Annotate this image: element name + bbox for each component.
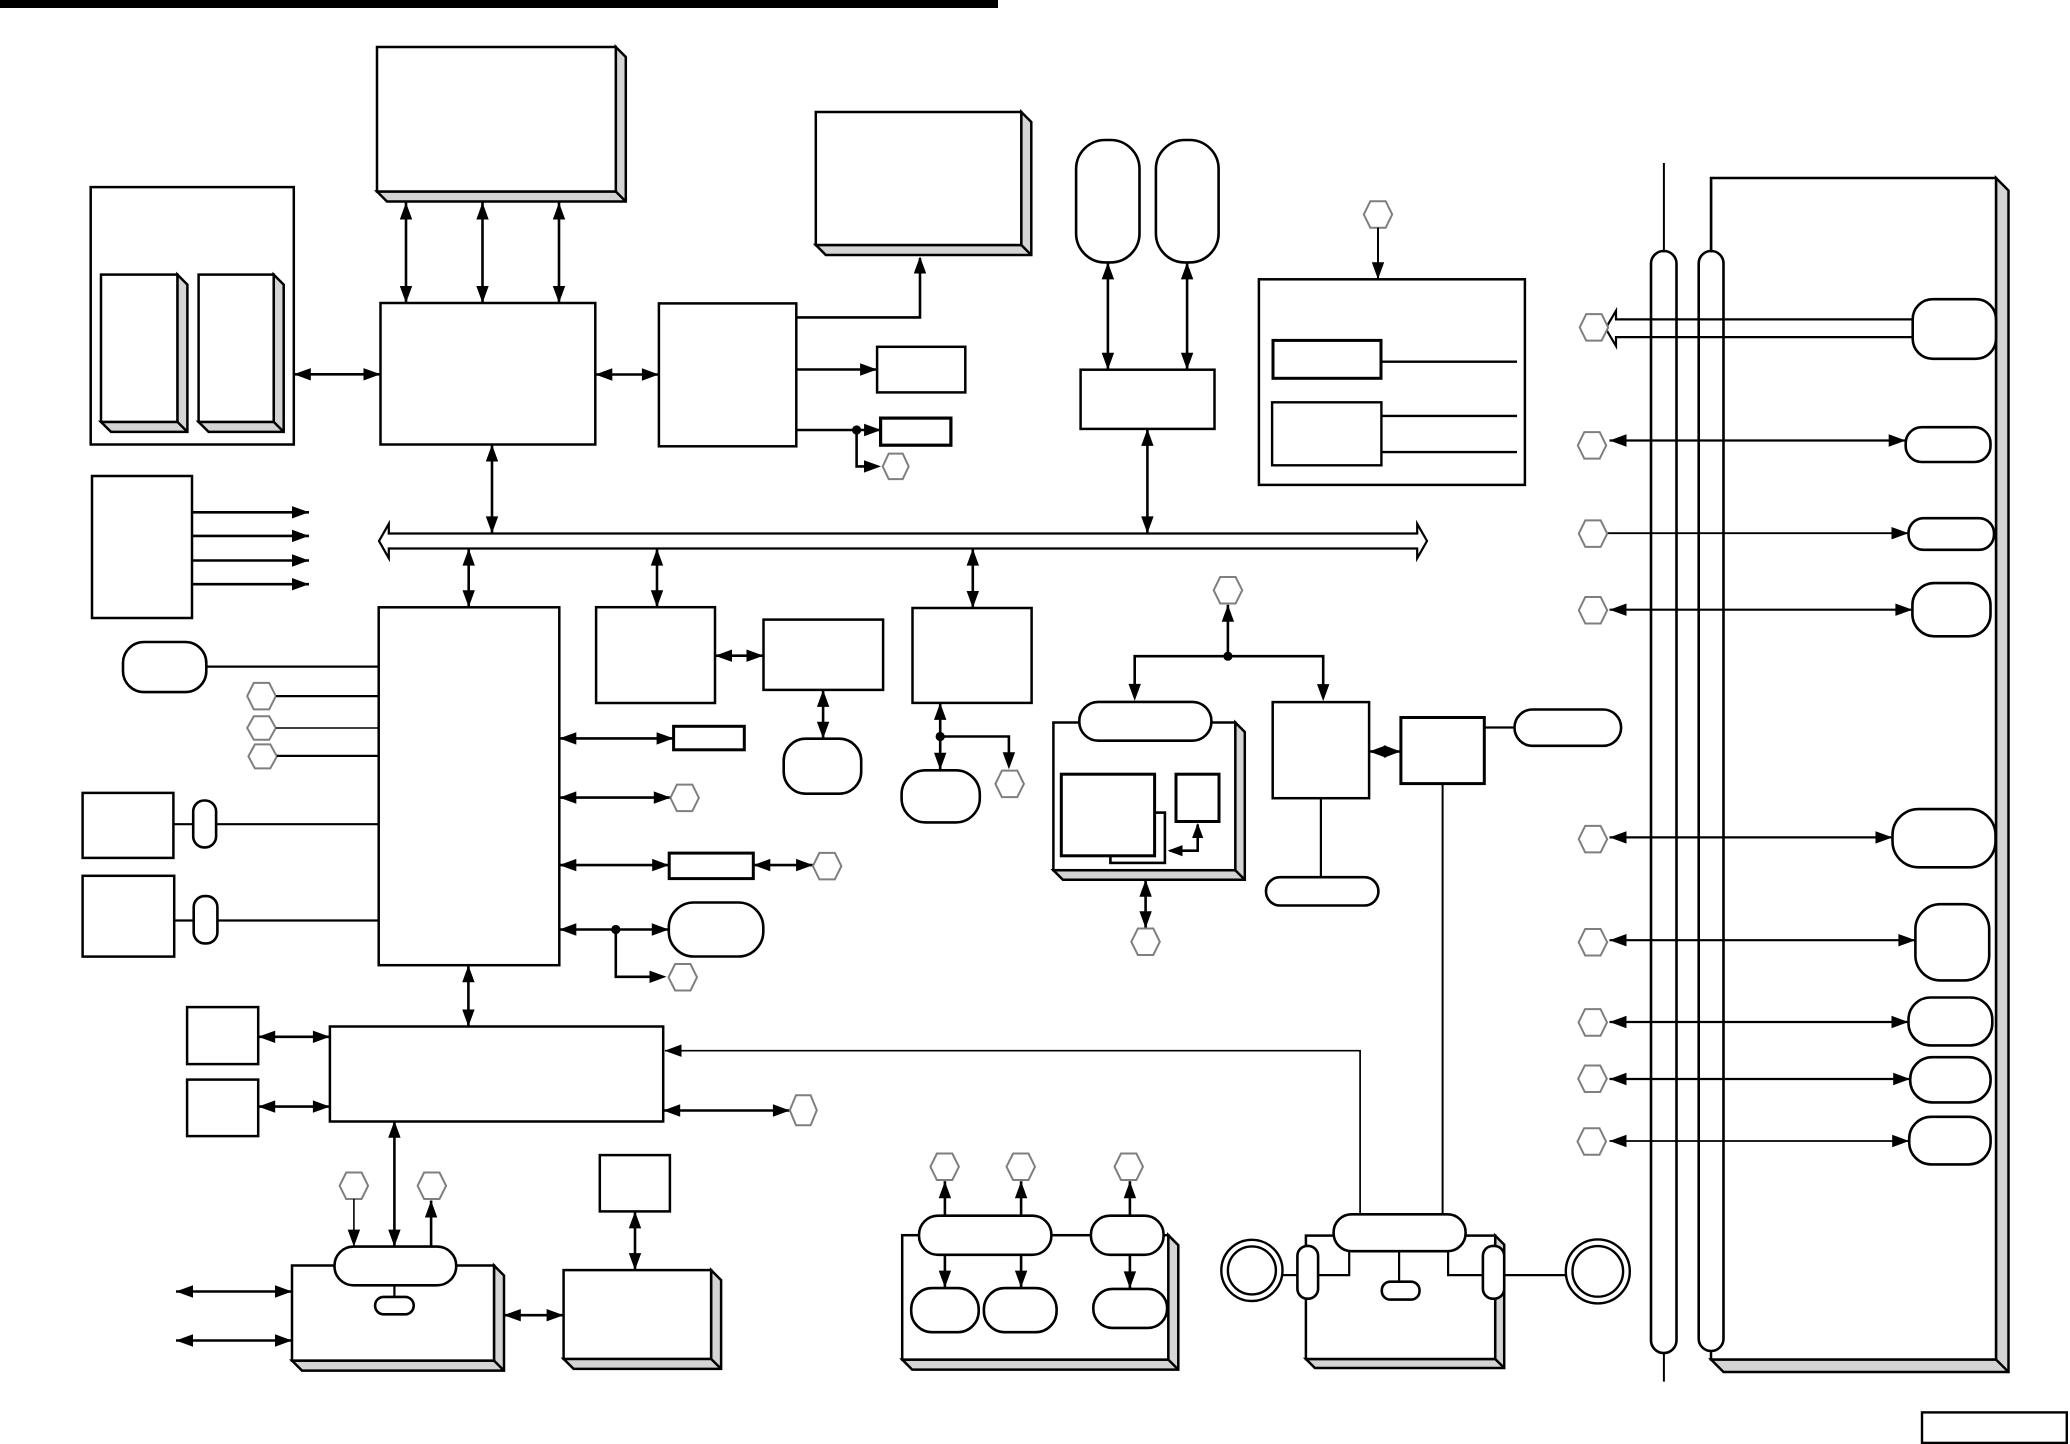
side capsule ZZ1 <box>1297 1246 1318 1299</box>
hexagon Z2 <box>813 853 842 880</box>
port box Y2 <box>669 853 753 879</box>
row 3 jack <box>1909 518 1995 550</box>
stadium GG <box>1266 877 1378 905</box>
speaker capsule WW2 <box>984 1288 1057 1332</box>
arrow N-Z1 <box>559 796 671 799</box>
MM left arrow 2 <box>176 1339 292 1342</box>
wire harness tube 1 <box>1651 251 1677 1353</box>
arrow NN-PP2 <box>430 1201 433 1247</box>
connector row 3 arrow <box>1606 532 1909 534</box>
elbow XX-ZZ2 <box>1448 1251 1483 1275</box>
line Q1 to N <box>173 823 378 825</box>
stadium II <box>1515 710 1622 746</box>
branch to hexagon F <box>857 430 866 466</box>
connector row 7 arrow <box>1610 1021 1909 1023</box>
tube 1 lower lead wire <box>1663 1352 1665 1382</box>
arrow bus-box V <box>971 549 974 608</box>
hexagon top A <box>930 1154 959 1181</box>
capsule AAA inside YY <box>1382 1282 1420 1300</box>
row 7 jack <box>1909 998 1993 1046</box>
wire harness tube 2 <box>1699 251 1724 1351</box>
SIMM 3D box 1 <box>101 275 187 432</box>
elbow B to C <box>796 258 920 317</box>
up arrow VV1-hexA <box>944 1181 947 1216</box>
hexagon QQ <box>669 964 698 991</box>
modem 3D box YY <box>1306 1236 1504 1368</box>
arrow S-T <box>715 654 764 657</box>
capsule VV2 on UU <box>1091 1216 1164 1255</box>
hexagon F <box>883 454 909 480</box>
row 1 jack (large rounded) <box>1913 299 1996 359</box>
option box I <box>1259 279 1525 485</box>
arrow B to D <box>796 368 877 371</box>
head rect EE3 <box>1176 774 1219 821</box>
connector row 8 arrow <box>1610 1078 1911 1080</box>
line B to E with branch <box>796 429 881 432</box>
arrow V-W with junction <box>939 703 942 770</box>
up arrow VV2-hexC <box>1129 1181 1132 1216</box>
row 1 hexagon connector <box>1580 314 1609 341</box>
arrow PP1-NN <box>353 1199 355 1247</box>
small box E <box>881 418 951 445</box>
tube 1 upper lead wire <box>1663 163 1665 253</box>
arrow KK1-LL <box>258 1036 330 1039</box>
box T <box>764 620 884 690</box>
row 9 jack <box>1909 1117 1990 1165</box>
side capsule ZZ2 <box>1483 1246 1504 1299</box>
hexagon top C <box>1115 1154 1144 1181</box>
arrow bus-box N <box>467 549 470 608</box>
arrow G-bus <box>1146 429 1149 534</box>
small port box Y1 <box>674 726 745 750</box>
row 7 hexagon connector <box>1579 1009 1608 1036</box>
row 6 jack <box>1915 904 1989 980</box>
row 8 jack <box>1910 1057 1990 1102</box>
hexagon H above I <box>1364 201 1392 228</box>
junction dot near E <box>852 425 861 434</box>
sensor capsule P <box>123 642 206 692</box>
title bar <box>0 0 998 8</box>
inline capsule R2 <box>194 896 218 943</box>
line hex3 to N <box>277 755 379 757</box>
arrow tree junction above EE/DD <box>1223 652 1232 661</box>
hexagon X <box>995 771 1024 798</box>
I/F box LL <box>330 1027 663 1122</box>
connector row 2 arrow <box>1610 439 1906 441</box>
platter rect EE2 (behind) <box>1110 813 1165 863</box>
arrow CPU-B <box>595 373 659 376</box>
arrow H to I <box>1377 228 1379 280</box>
line NN-OO <box>393 1285 395 1297</box>
arrow MM-TT <box>504 1314 564 1317</box>
inline capsule R1 <box>193 801 216 848</box>
line Q2 to N <box>174 919 379 921</box>
capsule OO <box>375 1297 414 1314</box>
main unit chassis (3D box) <box>1711 178 2009 1372</box>
line HH-II <box>1484 726 1514 728</box>
hexagon RR <box>790 1095 817 1125</box>
down arrow VV2-WW3 <box>1129 1255 1132 1289</box>
slot 2 line b <box>1381 451 1517 453</box>
tube 2 upper lead wire <box>1710 178 1712 253</box>
hexagon input 2 <box>247 716 276 740</box>
hexagon PP2 <box>418 1173 447 1200</box>
connector row 6 arrow <box>1610 939 1916 941</box>
slot 2 line a <box>1381 415 1517 417</box>
M output arrows x4 <box>192 511 309 514</box>
down arrow VV1-WW1 <box>944 1255 947 1288</box>
CPU box <box>381 303 596 445</box>
connector row 9 arrow <box>1610 1140 1910 1142</box>
line P to N <box>206 665 378 667</box>
box SS <box>600 1155 670 1211</box>
arrows capsules-G <box>1107 262 1110 369</box>
hexagon input 3 <box>248 744 277 768</box>
row 4 jack <box>1912 583 1990 636</box>
stadium U <box>784 739 862 794</box>
memory module 3D box A <box>377 47 626 202</box>
hexagon Z1 <box>670 785 699 812</box>
MM left arrow 1 <box>176 1290 292 1293</box>
hexagon FF <box>1131 929 1160 956</box>
switch box Q2 <box>83 876 175 957</box>
connector ring circle 1 <box>1221 1240 1282 1301</box>
battery capsule 2 <box>1156 140 1219 262</box>
hexagon top B <box>1007 1154 1036 1181</box>
elbow EE2-EE3 <box>1170 825 1198 851</box>
controller box DD <box>1273 702 1369 798</box>
interrupt box M <box>92 476 192 618</box>
audio stadium AA <box>669 903 764 957</box>
arrow N-AA with junction <box>559 928 669 931</box>
hexagon input 1 <box>247 683 276 710</box>
elbow to CC <box>1135 656 1228 688</box>
SIMM 3D box 2 <box>199 275 284 432</box>
elbow XX-ZZ1 <box>1318 1251 1349 1275</box>
bus arrows A-CPU x3 <box>405 203 408 304</box>
connector row 5 arrow <box>1610 836 1893 838</box>
controller box B <box>659 303 796 446</box>
platter rect EE1 <box>1061 774 1154 856</box>
arrow sockets-CPU <box>294 373 381 376</box>
arrow N-Y2 <box>559 864 669 867</box>
connector row 4 arrow <box>1610 609 1913 611</box>
capsule XX on YY <box>1334 1214 1466 1251</box>
connector row 1: open bus arrow to jack <box>1606 311 1913 346</box>
speaker capsule WW3 <box>1093 1289 1167 1328</box>
branch V to hexagon X <box>940 737 1009 756</box>
speaker capsule WW1 <box>911 1288 979 1332</box>
row 9 hexagon connector <box>1578 1128 1607 1155</box>
small box D <box>877 347 965 393</box>
arrow KK2-LL <box>258 1105 330 1108</box>
battery capsule 1 <box>1076 140 1139 262</box>
line HH down to XX <box>1442 784 1444 1215</box>
line XX-AAA <box>1398 1251 1400 1282</box>
elbow to DD <box>1228 656 1323 688</box>
arrow T-U <box>822 690 825 739</box>
row 3 hexagon connector <box>1579 520 1607 547</box>
line hex2 to N <box>276 727 379 729</box>
HDD 3D box EE <box>1053 723 1244 880</box>
row 2 hexagon connector <box>1578 432 1606 459</box>
line circle1-ZZ1 <box>1282 1274 1297 1276</box>
arrow LL-NN <box>393 1121 396 1247</box>
arrow SS-TT <box>634 1211 637 1270</box>
switch box Q1 <box>83 793 174 858</box>
arrow N-LL <box>467 965 470 1026</box>
up arrow VV1-hexB <box>1020 1181 1023 1216</box>
row 6 hexagon connector <box>1579 929 1608 956</box>
arrow DD-HH <box>1369 750 1401 753</box>
arrow CPU-bus <box>491 445 494 534</box>
capsule CC on EE <box>1079 702 1211 741</box>
socket outer box <box>91 187 294 444</box>
row 5 hexagon connector <box>1579 826 1608 853</box>
down arrow VV1-WW2 <box>1020 1255 1023 1288</box>
hexagon BB <box>1214 577 1243 604</box>
line ZZ2-circle2 <box>1504 1274 1566 1276</box>
capsule VV1 on UU <box>919 1216 1051 1255</box>
system bus double arrow <box>379 524 1427 558</box>
arrow Y2-Z2 <box>753 864 813 867</box>
line hex1 to N <box>276 695 379 697</box>
box V <box>913 608 1032 703</box>
box HH <box>1401 718 1484 784</box>
row 8 hexagon connector <box>1578 1066 1607 1093</box>
power box G <box>1081 370 1215 429</box>
connector ring circle 2 <box>1566 1239 1630 1303</box>
hexagon PP1 <box>340 1173 369 1200</box>
clock box S <box>596 607 715 703</box>
display 3D box C <box>816 112 1032 255</box>
arrow bus-box S <box>656 549 659 608</box>
box KK2 <box>187 1080 258 1137</box>
stadium NN on MM <box>335 1247 457 1286</box>
line DD-GG <box>1320 798 1322 877</box>
stadium W <box>902 770 980 822</box>
bottom-right revision box <box>1922 1412 2067 1443</box>
row 4 hexagon connector <box>1579 597 1607 624</box>
inner slot rect 1 <box>1273 340 1381 378</box>
long feedback line from dongle to LL <box>665 1051 1360 1215</box>
row 2 jack <box>1906 427 1991 462</box>
arrow N-Y1 <box>559 737 673 740</box>
arrow EE-FF <box>1144 880 1147 929</box>
I/O controller box N <box>379 607 560 965</box>
box KK1 <box>187 1007 258 1064</box>
keyboard 3D box TT <box>564 1270 722 1369</box>
branch to hexagon QQ <box>616 930 652 977</box>
panel 3D box MM <box>292 1266 504 1371</box>
arrow LL-RR <box>663 1109 790 1112</box>
inner slot rect 2 <box>1272 402 1381 465</box>
row 5 jack (largest) <box>1893 809 1996 867</box>
slot 1 line <box>1381 361 1517 363</box>
speaker 3D box UU <box>902 1235 1178 1369</box>
